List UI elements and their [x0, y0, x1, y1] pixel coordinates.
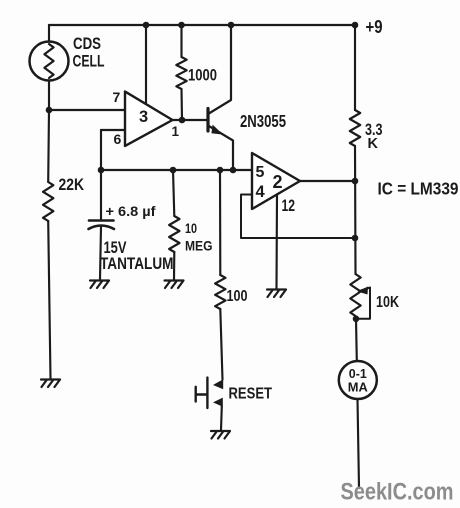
label 0-1 MA — [348, 367, 368, 395]
node wiper junction — [353, 316, 360, 323]
potentiometer R 10K element — [350, 274, 360, 316]
label +9 — [366, 17, 383, 37]
resistor R 10 MEG — [169, 216, 179, 252]
switch S1 reset lower contact — [213, 398, 223, 407]
node bus / 10MEG junction — [170, 167, 177, 174]
ground under pin 12 — [267, 290, 286, 298]
svg-text:5: 5 — [256, 164, 265, 181]
svg-text:2: 2 — [273, 172, 283, 192]
node feedback junction — [352, 235, 359, 242]
svg-text:0-1: 0-1 — [349, 367, 367, 381]
photocell CDS cell (circle) — [30, 42, 69, 81]
transistor Q1 collector — [208, 25, 231, 114]
wire bus to comparator pin 5 — [101, 169, 252, 171]
resistor R 100 — [215, 275, 225, 309]
svg-text:7: 7 — [113, 89, 121, 105]
label 2 inside comparator — [273, 172, 283, 192]
ground under reset switch — [211, 431, 230, 439]
wire 22K top lead — [47, 110, 50, 182]
node top rail / 1000-ohm junction — [178, 22, 185, 29]
transistor Q1 emitter — [208, 126, 233, 171]
wire to op-amp pin 6 — [101, 129, 125, 131]
resistor R 1000 — [176, 57, 186, 89]
label + 6.8 uf — [106, 204, 156, 220]
wire right rail top segment — [354, 25, 356, 110]
node output pin1 / 1000-ohm junction — [179, 117, 186, 124]
wire below meter — [358, 399, 360, 488]
node +9 terminal — [352, 22, 359, 29]
svg-text:MA: MA — [348, 381, 368, 395]
node CDS / 22K / pin7 junction — [46, 107, 53, 114]
wire 10MEG top lead — [173, 170, 174, 216]
svg-text:12: 12 — [282, 197, 296, 215]
svg-text:K: K — [368, 136, 379, 152]
label 100 — [227, 288, 248, 305]
label pin 4 — [256, 183, 266, 201]
wire CDS cell top lead — [48, 25, 50, 42]
wire 10MEG bottom lead — [173, 252, 175, 280]
svg-text:1: 1 — [172, 124, 180, 139]
label RESET — [229, 386, 273, 403]
ground under 22K — [41, 380, 60, 388]
node comparator output junction — [352, 178, 359, 185]
svg-text:+9: +9 — [366, 17, 383, 37]
svg-text:CDS: CDS — [73, 35, 101, 53]
node bus / capacitor junction — [98, 167, 105, 174]
node bus / 100-ohm junction — [217, 167, 224, 174]
potentiometer wiper wire — [356, 288, 370, 319]
node top rail / collector junction — [228, 22, 235, 29]
label 3.3 K — [365, 120, 383, 152]
wire op-amp V+ from rail — [145, 25, 147, 103]
photocell CDS cell zigzag element — [44, 44, 53, 78]
label TANTALUM — [100, 255, 174, 273]
svg-text:IC = LM339: IC = LM339 — [378, 179, 459, 199]
label 10K — [376, 294, 399, 311]
wire comparator output — [300, 180, 355, 182]
node bus / emitter junction — [230, 167, 237, 174]
ground under capacitor — [90, 281, 109, 289]
wire pin6 down to bus — [100, 130, 102, 170]
wire op-amp output to transistor base — [173, 119, 209, 121]
wire CDS cell bottom lead — [48, 81, 50, 111]
label pin 5 — [256, 164, 265, 181]
svg-text:SeekIC.com: SeekIC.com — [341, 480, 454, 506]
wire 22K bottom lead to ground — [48, 221, 50, 379]
label 3 inside op-amp — [139, 108, 148, 126]
label 1000 — [188, 67, 217, 85]
svg-text:CELL: CELL — [73, 53, 105, 71]
wire 1000-ohm top lead — [180, 25, 182, 57]
label pin 1 — [172, 124, 180, 139]
watermark SeekIC.com — [341, 480, 454, 506]
svg-text:MEG: MEG — [185, 238, 213, 254]
ground under 10MEG — [165, 281, 184, 289]
wire 100-ohm to switch — [220, 309, 222, 380]
wire capacitor bottom lead — [100, 227, 101, 280]
potentiometer wiper arrow — [358, 287, 369, 295]
resistor R 22K — [43, 182, 53, 221]
svg-text:+ 6.8 µf: + 6.8 µf — [106, 204, 156, 220]
svg-text:10K: 10K — [376, 294, 399, 311]
wire capacitor top lead — [100, 170, 102, 219]
transistor Q1 emitter arrow — [211, 125, 223, 135]
wire 1000-ohm bottom lead — [180, 89, 183, 120]
svg-text:100: 100 — [227, 288, 248, 305]
svg-text:10: 10 — [185, 220, 197, 236]
wire 10K to meter — [355, 319, 358, 361]
label pin 12 — [282, 197, 296, 215]
label pin 6 — [114, 131, 122, 147]
label CDS CELL — [73, 35, 105, 71]
capacitor C1 6.8uF plates — [89, 221, 115, 230]
resistor R 3.3K — [350, 110, 360, 146]
switch S1 reset upper contact — [213, 379, 223, 389]
wire top +9 supply rail — [49, 24, 355, 26]
label 2N3055 — [240, 111, 286, 131]
svg-text:2N3055: 2N3055 — [240, 111, 286, 131]
wire pin 12 to ground — [275, 195, 278, 289]
wire switch to ground — [220, 406, 223, 430]
wire 100-ohm top lead — [219, 170, 221, 275]
svg-text:TANTALUM: TANTALUM — [100, 255, 174, 273]
svg-text:4: 4 — [256, 183, 266, 201]
label IC = LM339 — [378, 179, 459, 199]
wire pin 4 feedback — [241, 195, 355, 239]
meter M1 0-1 MA (circle) — [339, 361, 377, 399]
label 10 MEG — [185, 220, 213, 254]
op-amp section 3 of LM339 (triangle) — [125, 92, 173, 147]
label 22K — [59, 176, 85, 194]
switch S1 plunger — [196, 378, 208, 408]
wire right rail middle segment — [354, 146, 357, 274]
svg-text:22K: 22K — [59, 176, 85, 194]
label 15V — [104, 239, 127, 257]
comparator section 2 of LM339 (triangle) — [252, 153, 300, 209]
svg-text:RESET: RESET — [229, 386, 273, 403]
label pin 7 — [113, 89, 121, 105]
svg-text:6: 6 — [114, 131, 122, 147]
transistor Q1 2N3055 base bar — [206, 109, 209, 132]
wire to op-amp pin 7 — [49, 109, 125, 111]
svg-text:3: 3 — [139, 108, 148, 126]
svg-text:1000: 1000 — [188, 67, 217, 85]
node top rail / op-amp V+ junction — [143, 22, 150, 29]
